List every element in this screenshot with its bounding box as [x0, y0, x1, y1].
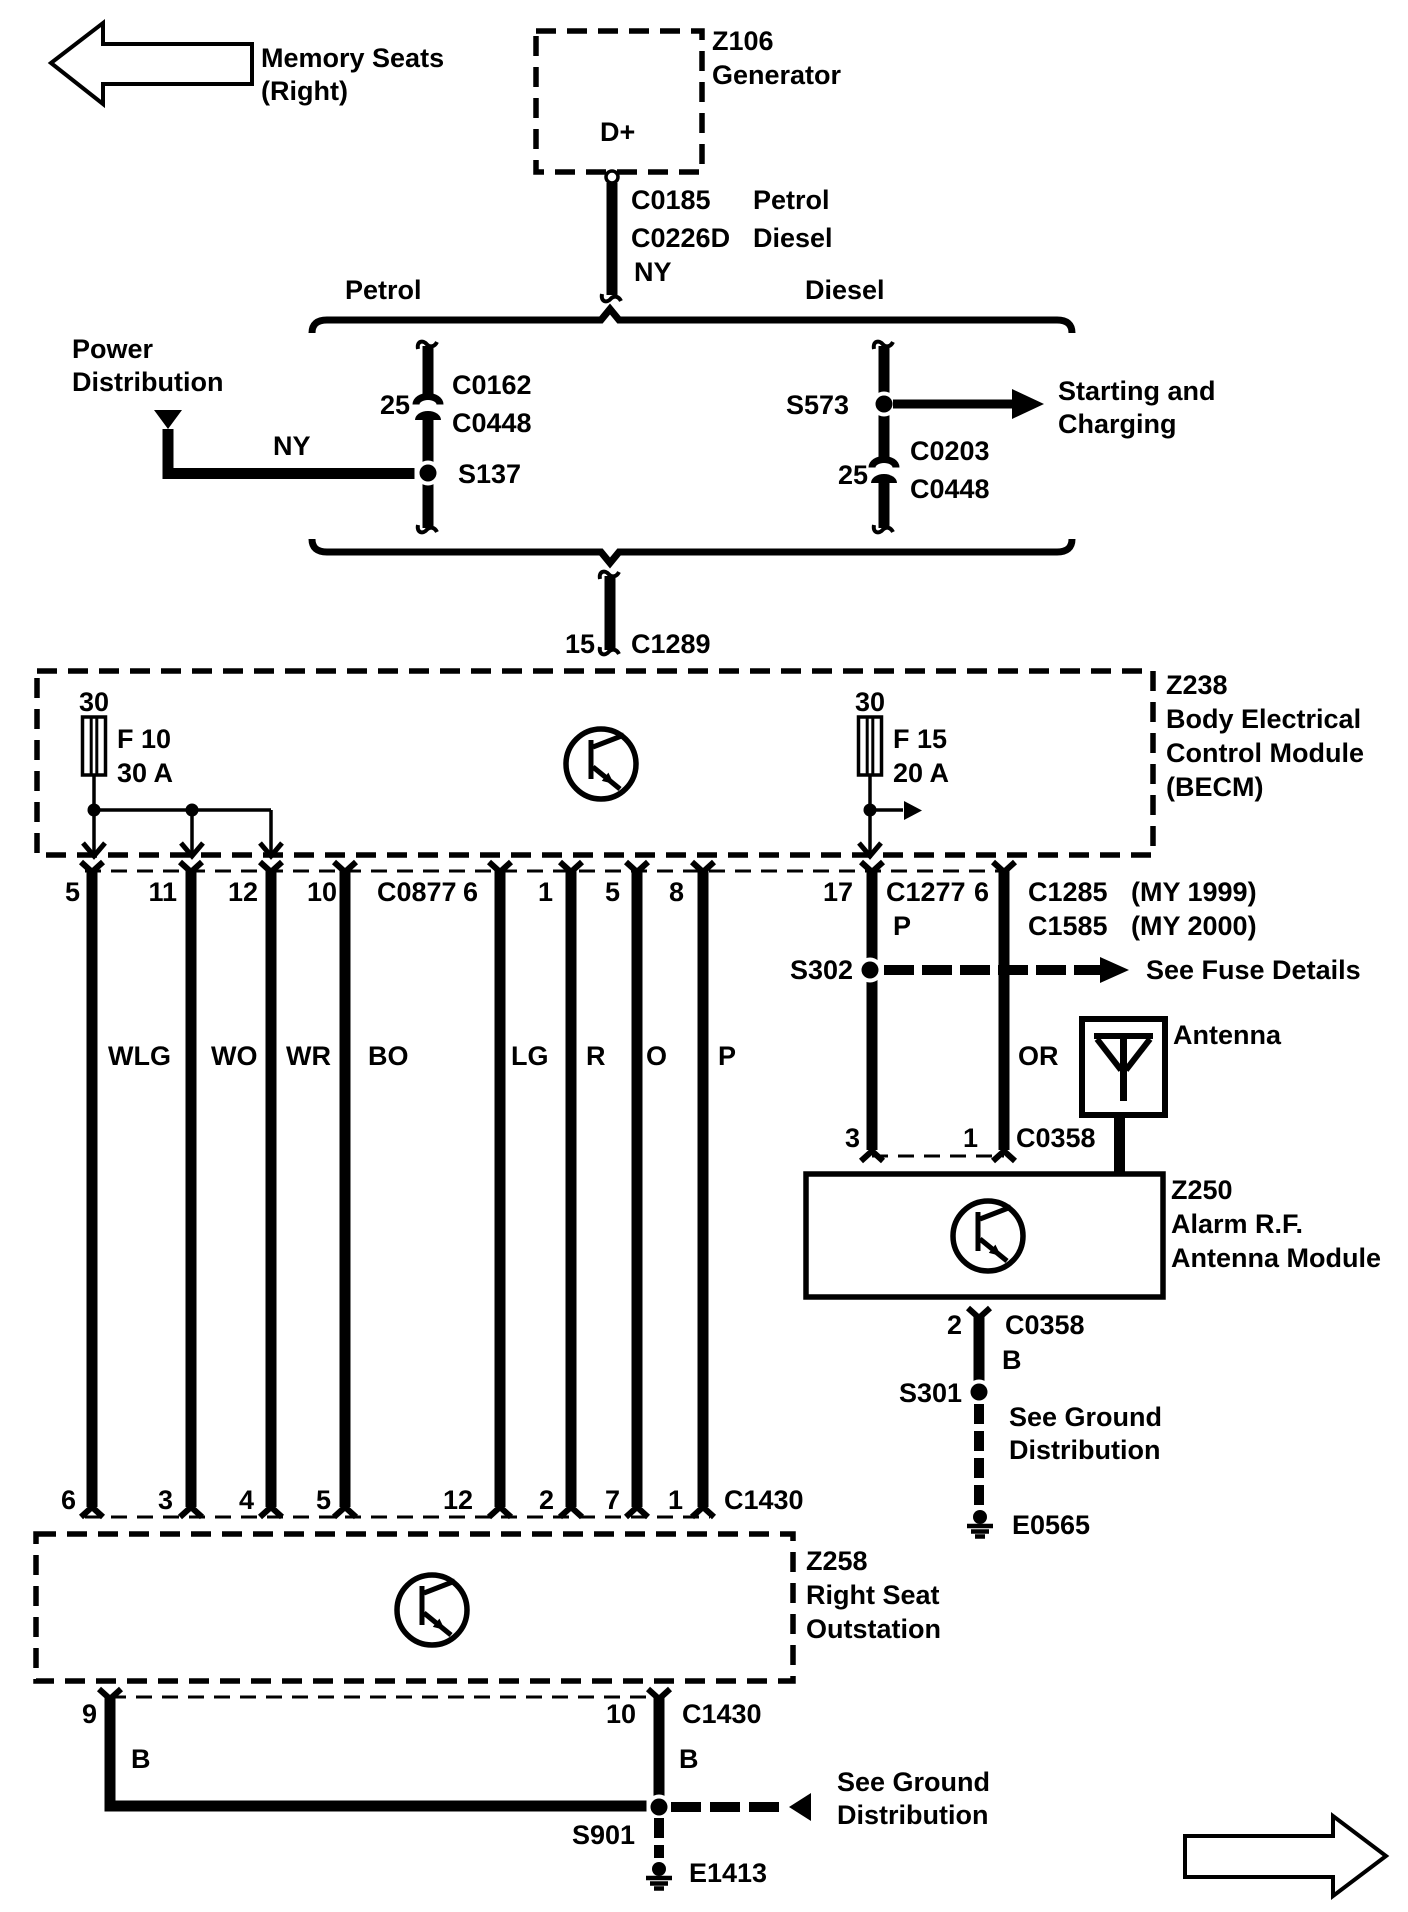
wire from F10 to pins [83, 775, 282, 856]
node S301 [899, 1378, 992, 1408]
svg-text:2: 2 [539, 1485, 554, 1515]
svg-text:30: 30 [855, 687, 885, 717]
svg-text:Charging: Charging [1058, 409, 1177, 439]
svg-text:Z250: Z250 [1171, 1175, 1233, 1205]
svg-text:P: P [718, 1041, 736, 1071]
svg-text:S301: S301 [899, 1378, 962, 1408]
node S573 [786, 390, 897, 420]
svg-text:Petrol: Petrol [753, 185, 830, 215]
svg-text:WR: WR [286, 1041, 331, 1071]
svg-text:Z258: Z258 [806, 1546, 868, 1576]
svg-text:B: B [679, 1744, 699, 1774]
svg-text:Alarm R.F.: Alarm R.F. [1171, 1209, 1303, 1239]
svg-text:C0358: C0358 [1016, 1123, 1096, 1153]
svg-text:S573: S573 [786, 390, 849, 420]
svg-text:NY: NY [634, 257, 672, 287]
wire B from pin 10 [654, 1698, 665, 1796]
svg-text:20 A: 20 A [893, 758, 949, 788]
pin 4 c1430 [260, 1507, 282, 1517]
svg-text:17: 17 [823, 877, 853, 907]
svg-text:10: 10 [307, 877, 337, 907]
pin 5b [626, 862, 648, 872]
note see ground distribution (right) [1009, 1402, 1162, 1465]
svg-text:Generator: Generator [712, 60, 842, 90]
svg-text:Z238: Z238 [1166, 670, 1228, 700]
svg-text:Antenna Module: Antenna Module [1171, 1243, 1381, 1273]
svg-text:S302: S302 [790, 955, 853, 985]
off-page arrow: Memory Seats (Right) [51, 23, 444, 106]
svg-text:11: 11 [148, 877, 177, 907]
svg-text:12: 12 [228, 877, 258, 907]
wire petrol branch [418, 342, 437, 533]
connector C0185 hollow dot [606, 171, 618, 183]
svg-text:Diesel: Diesel [753, 223, 833, 253]
wire B from pin 9 [105, 1698, 647, 1812]
svg-text:Distribution: Distribution [1009, 1435, 1160, 1465]
svg-text:(Right): (Right) [261, 76, 348, 106]
brace bottom [312, 539, 1072, 563]
svg-text:Diesel: Diesel [805, 275, 885, 305]
connector line C0358 pins 3,1 [845, 1123, 1096, 1161]
node S302 and dashed link to fuse details [790, 955, 1361, 985]
svg-text:6: 6 [463, 877, 478, 907]
connector 25 C0162/C0448 [380, 370, 532, 438]
module symbol U3 transistor in Z258 [397, 1575, 467, 1645]
pin 12 c1430 [489, 1507, 511, 1517]
svg-text:10: 10 [606, 1699, 636, 1729]
svg-text:C1285: C1285 [1028, 877, 1108, 907]
svg-text:25: 25 [838, 460, 868, 490]
svg-text:6: 6 [61, 1485, 76, 1515]
svg-text:Power: Power [72, 334, 154, 364]
svg-text:C1585: C1585 [1028, 911, 1108, 941]
pin 1 [560, 862, 582, 872]
svg-text:E0565: E0565 [1012, 1510, 1090, 1540]
wire NY from generator [602, 183, 833, 301]
connector line C1430 bottom of Z258 [110, 1696, 659, 1699]
pin labels row [65, 877, 1257, 941]
brace top [312, 309, 1072, 333]
svg-text:C0203: C0203 [910, 436, 990, 466]
svg-text:C0877: C0877 [377, 877, 457, 907]
svg-text:C0448: C0448 [910, 474, 990, 504]
svg-text:F 10: F 10 [117, 724, 171, 754]
svg-text:NY: NY [273, 431, 311, 461]
svg-text:Z106: Z106 [712, 26, 774, 56]
wire antenna to Z250 [1114, 1115, 1125, 1175]
svg-text:WLG: WLG [108, 1041, 171, 1071]
svg-text:25: 25 [380, 390, 410, 420]
module Z238 BECM dashed box [37, 670, 1364, 855]
svg-text:2: 2 [947, 1310, 962, 1340]
svg-text:Control Module: Control Module [1166, 738, 1364, 768]
svg-text:1: 1 [538, 877, 553, 907]
svg-text:5: 5 [605, 877, 620, 907]
svg-text:C1277: C1277 [886, 877, 966, 907]
svg-text:Antenna: Antenna [1173, 1020, 1282, 1050]
wire from F15 to pin 17 [859, 775, 922, 856]
pin 2 C0358 [947, 1308, 1085, 1383]
pin 6 c1430 [81, 1507, 103, 1517]
wire P w9 (pin17) [867, 871, 878, 1150]
svg-text:LG: LG [511, 1041, 549, 1071]
svg-text:15: 15 [565, 629, 595, 659]
module Z250 Alarm R.F. Antenna Module [806, 1174, 1381, 1297]
off-page triangle Power Distribution [72, 334, 223, 429]
wire NY to S137 [163, 429, 415, 479]
svg-text:C0358: C0358 [1005, 1310, 1085, 1340]
pin 1 c1430 [692, 1507, 714, 1517]
svg-text:Petrol: Petrol [345, 275, 422, 305]
svg-text:4: 4 [239, 1485, 254, 1515]
svg-text:Distribution: Distribution [837, 1800, 988, 1830]
svg-text:(MY 2000): (MY 2000) [1131, 911, 1257, 941]
pin 8 [692, 862, 714, 872]
svg-text:See Fuse Details: See Fuse Details [1146, 955, 1361, 985]
svg-text:D+: D+ [600, 117, 635, 147]
svg-text:See Ground: See Ground [1009, 1402, 1162, 1432]
wire diesel branch [874, 342, 893, 533]
dashed link to ground distribution [671, 1767, 990, 1830]
wire BO w4 [340, 871, 351, 1507]
svg-text:F 15: F 15 [893, 724, 947, 754]
pin 10 [606, 1689, 762, 1774]
pin 6b [993, 862, 1015, 872]
svg-text:1: 1 [668, 1485, 683, 1515]
svg-text:C0185: C0185 [631, 185, 711, 215]
wire R w6 [566, 871, 577, 1507]
pin 7 c1430 [626, 1507, 648, 1517]
svg-text:Outstation: Outstation [806, 1614, 941, 1644]
ground E1413 [646, 1858, 767, 1889]
ground E0565 [967, 1510, 1090, 1540]
svg-text:5: 5 [65, 877, 80, 907]
module symbol U1 transistor in BECM [566, 729, 636, 799]
svg-text:8: 8 [669, 877, 684, 907]
svg-text:R: R [586, 1041, 606, 1071]
svg-text:Distribution: Distribution [72, 367, 223, 397]
svg-text:O: O [646, 1041, 667, 1071]
pin 11 [180, 862, 202, 872]
pin 5 c1430 [334, 1507, 356, 1517]
svg-text:3: 3 [158, 1485, 173, 1515]
pin 3 c1430 [180, 1507, 202, 1517]
pin labels C1430 row [61, 1485, 804, 1515]
svg-text:BO: BO [368, 1041, 409, 1071]
svg-text:12: 12 [443, 1485, 473, 1515]
svg-text:7: 7 [605, 1485, 620, 1515]
pin 2 c1430 [560, 1507, 582, 1517]
svg-text:C1289: C1289 [631, 629, 711, 659]
svg-text:S901: S901 [572, 1820, 635, 1850]
connector 25 C0203/C0448 [838, 436, 990, 504]
connector line C1430 top of Z258 [85, 1516, 710, 1519]
wire dashed to ground E1413 [654, 1818, 664, 1858]
wire P w8 [698, 871, 709, 1507]
wire dashed to ground E0565 [974, 1404, 984, 1506]
wire WR w3 [266, 871, 277, 1507]
svg-text:C1430: C1430 [724, 1485, 804, 1515]
wire WLG w1 [87, 871, 98, 1507]
node S901 [572, 1795, 672, 1851]
svg-text:6: 6 [974, 877, 989, 907]
svg-text:E1413: E1413 [689, 1858, 767, 1888]
svg-text:Right Seat: Right Seat [806, 1580, 940, 1610]
wire colour labels [108, 1041, 1059, 1071]
antenna [1082, 1019, 1282, 1115]
svg-text:P: P [893, 911, 911, 941]
svg-text:1: 1 [963, 1123, 978, 1153]
pin 12 [260, 862, 282, 872]
svg-text:C0448: C0448 [452, 408, 532, 438]
pin 5 [81, 862, 103, 872]
svg-text:5: 5 [316, 1485, 331, 1515]
wire OR w10 [999, 871, 1010, 1150]
fuse F10 30A [79, 687, 173, 788]
svg-text:See Ground: See Ground [837, 1767, 990, 1797]
svg-text:3: 3 [845, 1123, 860, 1153]
svg-text:(MY 1999): (MY 1999) [1131, 877, 1257, 907]
svg-text:9: 9 [82, 1699, 97, 1729]
module Z258 Right Seat Outstation [36, 1534, 941, 1681]
svg-text:B: B [1002, 1345, 1022, 1375]
generator Z106 [536, 26, 842, 172]
fuse F15 20A [855, 687, 949, 788]
svg-text:Starting and: Starting and [1058, 376, 1216, 406]
pin 6 [489, 862, 511, 872]
svg-text:Memory Seats: Memory Seats [261, 43, 444, 73]
pin 17 [861, 862, 883, 872]
wire WO w2 [186, 871, 197, 1507]
svg-text:30 A: 30 A [117, 758, 173, 788]
module symbol U2 transistor in Z250 [953, 1201, 1023, 1271]
wire to C1289 [565, 572, 711, 659]
svg-text:C1430: C1430 [682, 1699, 762, 1729]
wire LG w5 [495, 871, 506, 1507]
connector line C0877/C1277/C1285 below BECM [85, 870, 1006, 873]
svg-text:(BECM): (BECM) [1166, 772, 1263, 802]
svg-text:C0226D: C0226D [631, 223, 730, 253]
svg-text:S137: S137 [458, 459, 521, 489]
pin 10 [334, 862, 356, 872]
svg-text:Body Electrical: Body Electrical [1166, 704, 1361, 734]
svg-text:C0162: C0162 [452, 370, 532, 400]
svg-text:OR: OR [1018, 1041, 1059, 1071]
wire O w7 [632, 871, 643, 1507]
svg-text:B: B [131, 1744, 151, 1774]
svg-text:30: 30 [79, 687, 109, 717]
off-page arrow bottom right [1185, 1816, 1386, 1896]
off-page arrow Starting and Charging [893, 376, 1216, 439]
svg-text:WO: WO [211, 1041, 258, 1071]
node S137 [416, 459, 522, 489]
pin 9 [82, 1689, 151, 1774]
